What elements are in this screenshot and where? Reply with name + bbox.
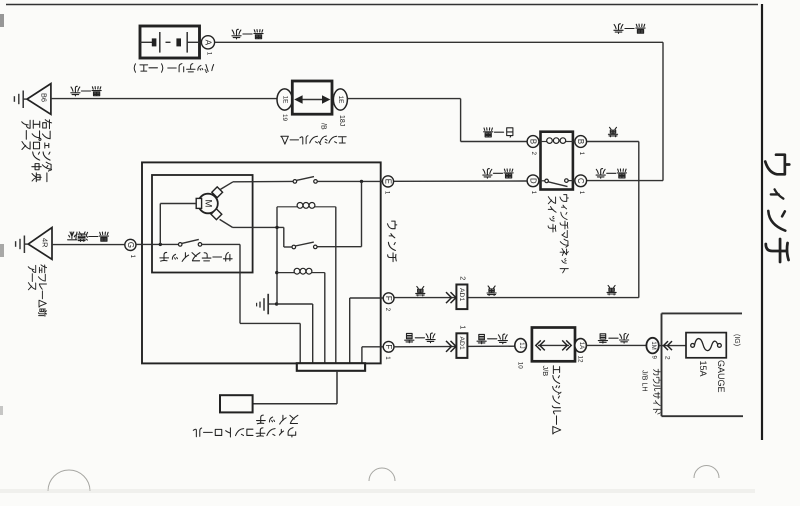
svg-text:1: 1 bbox=[578, 191, 585, 195]
svg-text:2: 2 bbox=[458, 276, 467, 280]
ground B6 right fender apron bbox=[14, 84, 51, 115]
svg-text:(IG): (IG) bbox=[733, 334, 740, 346]
junction connector AD1 pin2 bbox=[446, 276, 467, 309]
internal ground bbox=[257, 294, 279, 315]
svg-text:AD1: AD1 bbox=[458, 288, 465, 301]
svg-text:J/B: J/B bbox=[541, 366, 550, 377]
switch2 (lower) bbox=[292, 242, 317, 249]
field coil 1 bbox=[277, 203, 336, 209]
wire F2 left and down to bar bbox=[350, 298, 384, 363]
wire B1 yellow down to F2 run bbox=[394, 142, 639, 298]
winch label column bbox=[387, 221, 396, 229]
svg-text:C: C bbox=[576, 178, 585, 184]
wire F1 left and down to bar bbox=[362, 347, 383, 363]
terminal D1 bbox=[527, 175, 539, 187]
svg-text:J/B LH: J/B LH bbox=[640, 370, 649, 392]
fuse labels bbox=[698, 334, 740, 393]
svg-text:AD1: AD1 bbox=[458, 337, 465, 350]
label red-blue at F1 bbox=[405, 333, 435, 343]
terminal B2 bbox=[527, 136, 539, 148]
label black-red right top bbox=[614, 24, 645, 34]
svg-text:M: M bbox=[203, 200, 214, 208]
node F1 bbox=[383, 341, 394, 360]
wire D1 to E1 bbox=[394, 180, 527, 182]
svg-text:2: 2 bbox=[663, 356, 670, 360]
battery label bbox=[134, 64, 213, 73]
label black-red at C1 bbox=[596, 169, 626, 179]
svg-text:F: F bbox=[384, 344, 393, 349]
connector 1M9 bbox=[646, 338, 658, 360]
svg-text:1: 1 bbox=[530, 191, 537, 195]
svg-text:1A: 1A bbox=[578, 342, 584, 349]
stick controller labels bbox=[257, 415, 298, 424]
cowl side J/B box bbox=[662, 313, 744, 416]
svg-text:15A: 15A bbox=[698, 361, 708, 377]
svg-text:9: 9 bbox=[651, 356, 658, 360]
svg-text:10: 10 bbox=[516, 362, 523, 369]
thermo switch label bbox=[160, 252, 232, 261]
field coil 2 bbox=[277, 268, 325, 274]
wire thermo node up to motor left brush bbox=[160, 204, 196, 245]
scan artifacts (no labels needed) bbox=[48, 465, 719, 491]
svg-text:18J: 18J bbox=[338, 115, 345, 126]
wire 1M9 into fuse bbox=[659, 341, 686, 360]
wire 1E18J to relay B2 (white-black) bbox=[347, 99, 527, 142]
label black-red at D1 bbox=[483, 169, 513, 179]
svg-text:F: F bbox=[384, 296, 393, 301]
svg-text:B: B bbox=[576, 139, 585, 144]
svg-text:GAUGE: GAUGE bbox=[716, 360, 726, 393]
commutator bar bbox=[297, 363, 365, 371]
junction connector 1E19/18J engine room J/B bbox=[277, 81, 347, 130]
svg-text:D: D bbox=[529, 178, 538, 184]
label red-blue to cowl bbox=[598, 334, 628, 344]
thermo switch contact bbox=[178, 239, 201, 246]
wire coil1 right down to bar bbox=[335, 207, 337, 363]
ground1 label columns bbox=[22, 120, 52, 182]
node G1 bbox=[125, 239, 136, 258]
svg-text:G: G bbox=[126, 242, 135, 248]
svg-text:1: 1 bbox=[129, 254, 136, 258]
node A1 bbox=[201, 36, 214, 56]
svg-text:B6: B6 bbox=[40, 93, 49, 102]
switch1 (raise) bbox=[293, 177, 317, 184]
svg-text:1J: 1J bbox=[518, 342, 524, 348]
label black-darkgray bbox=[68, 232, 109, 242]
label yellow right segment bbox=[607, 285, 616, 295]
relay name columns bbox=[548, 195, 568, 273]
wire ground1 to junction connector (black-red) bbox=[51, 98, 277, 100]
svg-text:1: 1 bbox=[458, 325, 467, 329]
wire motor upper brush to switch1 bbox=[220, 181, 293, 189]
page top border bbox=[6, 4, 758, 6]
motor M bbox=[196, 187, 222, 220]
label red-blue after AD1 bbox=[477, 334, 507, 344]
relay switch contact bbox=[541, 180, 545, 182]
wire switch2 to motor lower brush bbox=[220, 219, 292, 247]
label white-black bbox=[484, 128, 513, 137]
svg-text:1E: 1E bbox=[281, 96, 288, 104]
terminal C1 bbox=[575, 175, 587, 187]
battery bbox=[140, 26, 200, 58]
svg-text:12: 12 bbox=[577, 356, 584, 363]
wire bar to stick controller bbox=[253, 371, 337, 404]
svg-text:4R: 4R bbox=[41, 238, 50, 247]
label yellow at B1 bbox=[608, 127, 617, 136]
wire ground2 to G1 (black-dark gray) bbox=[52, 244, 125, 246]
label yellow after AD1 bbox=[487, 286, 496, 296]
cowl side label columns bbox=[640, 369, 660, 414]
relay coil bbox=[541, 141, 547, 143]
label engine room (rot180) bbox=[281, 136, 346, 145]
node E1 bbox=[382, 176, 393, 195]
svg-text:/B: /B bbox=[320, 123, 327, 130]
svg-text:E: E bbox=[384, 179, 393, 184]
wire ground node to bar bbox=[277, 304, 313, 363]
engine room J/B box with 1J10 / 1A12 bbox=[515, 328, 587, 370]
svg-text:2: 2 bbox=[384, 308, 391, 312]
title ウィンチ bbox=[765, 155, 789, 262]
wire battery feed (black-red) bbox=[215, 42, 663, 180]
engine room J/B label columns bbox=[541, 366, 561, 434]
wire common vertical coil1-left / motor line / coil2-left / ground bbox=[275, 207, 279, 304]
wire coil2 right down to bar bbox=[324, 273, 326, 363]
ground2 label columns bbox=[28, 265, 46, 316]
svg-text:B: B bbox=[529, 139, 538, 144]
wire thermo out down-right to bar bbox=[202, 244, 300, 362]
thermo switch inner box bbox=[152, 175, 253, 273]
svg-text:1E: 1E bbox=[337, 96, 344, 104]
wire switch1 to E1 with junction bbox=[317, 180, 382, 183]
wire 1A12 to cowl bbox=[586, 344, 646, 346]
label black-red ground1 bbox=[71, 86, 101, 96]
junction connector AD1 pin1 bbox=[446, 325, 467, 358]
svg-text:1: 1 bbox=[383, 191, 390, 195]
stick controller box bbox=[220, 395, 253, 412]
svg-text:1: 1 bbox=[578, 152, 585, 156]
winch magnet switch relay bbox=[527, 132, 587, 195]
svg-text:A: A bbox=[204, 40, 213, 46]
terminal B1 bbox=[575, 136, 587, 148]
label black-red near battery bbox=[232, 29, 263, 39]
winch box bbox=[142, 162, 381, 363]
svg-text:2: 2 bbox=[530, 151, 537, 155]
wire F1 run to cowl side bbox=[394, 345, 515, 348]
svg-text:1M: 1M bbox=[650, 341, 656, 349]
svg-text:1: 1 bbox=[206, 52, 213, 56]
ground 4R left frame bbox=[16, 228, 52, 260]
label yellow at F2 bbox=[416, 286, 425, 296]
fuse 15A GAUGE bbox=[686, 333, 726, 358]
title separator line bbox=[761, 4, 763, 440]
wire G1 into thermo switch bbox=[136, 243, 178, 246]
svg-text:1: 1 bbox=[384, 356, 391, 360]
wire junction down to switch2 bbox=[317, 181, 361, 246]
svg-text:19: 19 bbox=[281, 114, 288, 122]
node F2 bbox=[383, 293, 394, 312]
